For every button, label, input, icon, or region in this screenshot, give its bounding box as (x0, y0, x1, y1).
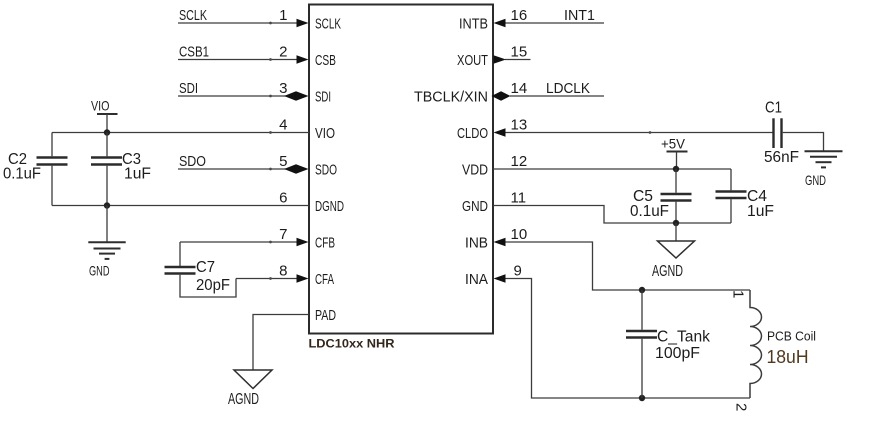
pin number 14 (511, 80, 528, 97)
capacitor C1 (774, 118, 824, 151)
wire SDI to pin 3 (178, 95, 286, 98)
capacitor C3 (91, 133, 122, 206)
pin number 16 (511, 7, 528, 24)
svg-text:INT1: INT1 (564, 7, 595, 24)
value 56nF (C1) (764, 149, 799, 166)
capacitor C2 (37, 133, 68, 206)
arrow into pin 10 (494, 238, 506, 246)
value 1uF (C3) (124, 166, 151, 183)
svg-text:5: 5 (279, 153, 287, 170)
ground GND (right) (805, 151, 843, 188)
label C7 (196, 259, 215, 276)
pin number 9 (514, 263, 522, 280)
svg-text:100pF: 100pF (655, 345, 700, 362)
label PCB Coil (767, 329, 816, 344)
svg-text:13: 13 (511, 117, 528, 134)
svg-text:SCLK: SCLK (315, 15, 341, 32)
pin name GND (pin 11) (462, 198, 488, 215)
label C_Tank (657, 329, 711, 346)
capacitor C4 (716, 169, 747, 223)
svg-text:9: 9 (514, 263, 522, 280)
net label LDCLK (546, 80, 590, 97)
svg-text:3: 3 (279, 80, 287, 97)
svg-text:GND: GND (89, 263, 110, 279)
svg-text:7: 7 (279, 226, 287, 243)
svg-text:SDO: SDO (179, 153, 206, 170)
svg-text:1uF: 1uF (747, 203, 774, 220)
value 100pF (C_Tank) (655, 345, 700, 362)
svg-text:11: 11 (511, 190, 527, 207)
ground AGND (left) triangle (228, 370, 272, 408)
node AGND junction (673, 220, 679, 226)
pin name CLDO (pin 13) (457, 125, 488, 142)
pin number 11 (511, 190, 527, 207)
svg-text:16: 16 (511, 7, 528, 24)
coil pin 1 label (730, 290, 747, 298)
pin name TBCLK/XIN (pin 14) (414, 88, 488, 105)
U1 label LDC10xx NHR (309, 339, 396, 351)
pin number 4 (279, 117, 287, 134)
svg-text:VIO: VIO (315, 125, 335, 142)
wire GND pin 11 to caps (493, 206, 731, 224)
wire SCLK to pin 1 (178, 22, 298, 25)
node VDD junction (673, 166, 679, 172)
svg-text:CLDO: CLDO (457, 125, 488, 142)
svg-text:1uF: 1uF (124, 166, 151, 183)
svg-text:1: 1 (279, 7, 287, 24)
svg-text:CSB1: CSB1 (179, 44, 209, 61)
wire DGND rail to pin 6 (52, 205, 309, 207)
node tank bottom junction (639, 395, 645, 401)
svg-text:2: 2 (733, 403, 750, 411)
pin name SDI (pin 3) (315, 88, 331, 105)
net label CSB1 (179, 44, 209, 61)
svg-text:C_Tank: C_Tank (657, 329, 711, 346)
bidirectional diamond pin 14 (492, 91, 511, 101)
pin number 1 (279, 7, 287, 24)
svg-text:INB: INB (465, 234, 488, 251)
pin name VDD (pin 12) (462, 161, 488, 178)
wire INTB to INT1 (504, 22, 604, 24)
svg-text:INTB: INTB (459, 15, 488, 32)
capacitor C5 (661, 169, 692, 223)
ground GND (left) (88, 242, 125, 278)
pin name XOUT (pin 15) (457, 52, 488, 69)
value 1uF (C4) (747, 203, 774, 220)
pin number 3 (279, 80, 287, 97)
svg-text:SDO: SDO (315, 161, 337, 178)
svg-text:4: 4 (279, 117, 287, 134)
wire CFB branch (180, 241, 298, 244)
svg-text:VDD: VDD (462, 161, 488, 178)
svg-text:CFA: CFA (315, 271, 334, 288)
svg-text:12: 12 (511, 153, 528, 170)
value 0.1uF (C2) (3, 166, 41, 183)
svg-text:8: 8 (279, 263, 287, 280)
coil pin 2 label (733, 403, 750, 411)
svg-text:AGND: AGND (228, 391, 259, 408)
label C1 (765, 100, 782, 117)
pin name SCLK (pin 1) (315, 15, 341, 32)
net label INT1 (564, 7, 595, 24)
svg-text:LDCLK: LDCLK (546, 80, 590, 97)
svg-text:DGND: DGND (315, 198, 344, 215)
node VIO junction (104, 129, 110, 135)
svg-text:XOUT: XOUT (457, 52, 488, 69)
arrow into pin 7 (297, 238, 309, 246)
power symbol VIO (91, 98, 118, 133)
label C3 (122, 151, 141, 168)
pin number 15 (511, 44, 528, 61)
arrow into pin 2 (297, 55, 309, 63)
node DGND junction (104, 202, 110, 208)
svg-text:LDC10xx NHR: LDC10xx NHR (309, 339, 396, 351)
pin number 6 (279, 190, 287, 207)
node tank top junction (639, 287, 645, 293)
pin name PAD (315, 307, 336, 324)
svg-text:SCLK: SCLK (179, 7, 207, 24)
svg-text:20pF: 20pF (196, 277, 230, 294)
svg-text:INA: INA (465, 271, 488, 288)
svg-text:TBCLK/XIN: TBCLK/XIN (414, 88, 488, 105)
arrow out of pin 15 (494, 55, 507, 63)
wire INB to tank (504, 242, 750, 290)
arrow into pin 16 (494, 19, 506, 27)
pin name CFA (pin 8) (315, 271, 334, 288)
wire VIO rail to pin 4 (52, 131, 309, 134)
pin number 2 (279, 44, 287, 61)
net label SDO (179, 153, 206, 170)
svg-text:SDI: SDI (315, 88, 331, 105)
svg-text:+5V: +5V (661, 136, 686, 152)
pin name VIO (pin 4) (315, 125, 335, 142)
svg-text:CSB: CSB (315, 52, 336, 69)
wire VDD rail (493, 168, 731, 170)
value 20pF (C7) (196, 277, 230, 294)
arrow into pin 9 (494, 274, 506, 282)
pin name CFB (pin 7) (315, 234, 335, 251)
wire CLDO to C1 (504, 131, 773, 134)
arrow into pin 8 (297, 274, 309, 282)
wire PAD to AGND (253, 315, 309, 370)
bidirectional diamond pin 3 (284, 91, 309, 101)
net label SDI (179, 80, 198, 97)
arrow into pin 1 (297, 19, 309, 27)
arrow into pin 13 (494, 128, 506, 136)
svg-text:GND: GND (805, 172, 826, 188)
label C5 (633, 188, 653, 205)
inductor L1 PCB Coil (750, 290, 762, 398)
capacitor C7 (165, 242, 237, 297)
pin number 7 (279, 226, 287, 243)
net label SCLK (179, 7, 207, 24)
power symbol +5V (661, 136, 688, 170)
label C2 (8, 151, 27, 168)
pin name INTB (pin 16) (459, 15, 488, 32)
svg-text:2: 2 (279, 44, 287, 61)
svg-text:14: 14 (511, 80, 528, 97)
value 0.1uF (C5) (630, 203, 669, 220)
label C4 (747, 188, 767, 205)
pin number 5 (279, 153, 287, 170)
capacitor C_Tank (626, 290, 657, 398)
wire junction to AGND (675, 223, 677, 241)
wire INA to tank (504, 279, 750, 399)
svg-text:C1: C1 (765, 100, 782, 117)
svg-text:PCB Coil: PCB Coil (767, 329, 816, 344)
pin number 13 (511, 117, 528, 134)
svg-text:6: 6 (279, 190, 287, 207)
svg-text:56nF: 56nF (764, 149, 799, 166)
svg-text:0.1uF: 0.1uF (630, 203, 669, 220)
pin number 10 (511, 226, 528, 243)
wire TBCLK/XIN to LDCLK (510, 95, 604, 97)
svg-text:VIO: VIO (91, 98, 110, 114)
bidirectional diamond pin 5 (284, 164, 309, 174)
pin number 8 (279, 263, 287, 280)
wire junction to GND (106, 206, 108, 243)
svg-text:0.1uF: 0.1uF (3, 166, 41, 183)
svg-text:C7: C7 (196, 259, 215, 276)
svg-text:1: 1 (730, 290, 747, 298)
wire XOUT stub (505, 59, 531, 61)
pin name DGND (pin 6) (315, 198, 344, 215)
pin number 12 (511, 153, 528, 170)
svg-text:SDI: SDI (179, 80, 198, 97)
wire CFA branch (236, 277, 298, 280)
svg-text:10: 10 (511, 226, 528, 243)
svg-text:18uH: 18uH (767, 347, 809, 367)
pin name INB (pin 10) (465, 234, 488, 251)
svg-text:GND: GND (462, 198, 488, 215)
svg-text:PAD: PAD (315, 307, 336, 324)
pin name SDO (pin 5) (315, 161, 337, 178)
op-amp U1 LDC10xx NHR chip body (309, 5, 493, 334)
pin name CSB (pin 2) (315, 52, 336, 69)
wire CSB1 to pin 2 (178, 58, 298, 61)
svg-text:CFB: CFB (315, 234, 335, 251)
wire SDO to pin 5 (178, 168, 286, 171)
value 18uH (coil) (767, 347, 809, 367)
pin name INA (pin 9) (465, 271, 488, 288)
ground AGND (right) triangle (652, 241, 695, 280)
svg-text:AGND: AGND (652, 263, 683, 280)
svg-text:15: 15 (511, 44, 528, 61)
